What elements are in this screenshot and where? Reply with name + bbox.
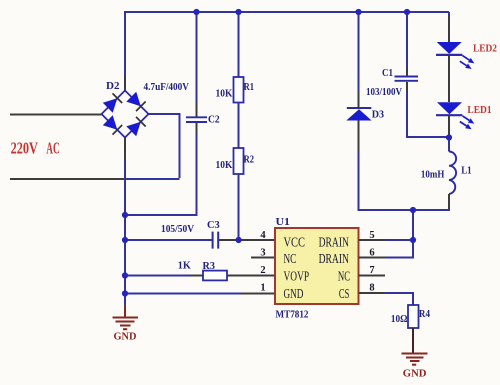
svg-text:10Ω: 10Ω	[391, 314, 408, 325]
svg-text:R2: R2	[244, 155, 254, 166]
svg-text:5: 5	[369, 230, 374, 241]
svg-text:R3: R3	[203, 261, 215, 272]
svg-text:R1: R1	[244, 82, 254, 93]
svg-text:3: 3	[260, 247, 265, 258]
svg-text:10mH: 10mH	[421, 170, 444, 181]
svg-text:GND: GND	[114, 332, 137, 343]
svg-text:6: 6	[369, 247, 374, 258]
svg-text:LED1: LED1	[467, 105, 491, 116]
svg-text:4: 4	[260, 230, 266, 241]
svg-text:L1: L1	[461, 166, 471, 177]
svg-text:VCC: VCC	[284, 234, 306, 249]
svg-text:U1: U1	[276, 217, 291, 228]
svg-text:NC: NC	[284, 251, 297, 266]
svg-text:DRAIN: DRAIN	[319, 251, 350, 266]
svg-text:220V: 220V	[11, 139, 39, 158]
svg-text:MT7812: MT7812	[276, 310, 309, 321]
svg-text:C1: C1	[382, 68, 393, 79]
svg-text:C3: C3	[207, 220, 220, 231]
svg-text:10K: 10K	[216, 160, 234, 171]
svg-text:7: 7	[369, 265, 374, 276]
svg-text:R4: R4	[419, 309, 431, 320]
svg-text:4.7uF/400V: 4.7uF/400V	[144, 82, 190, 93]
svg-text:NC: NC	[338, 269, 350, 284]
svg-text:10K: 10K	[216, 89, 234, 100]
svg-text:DRAIN: DRAIN	[319, 234, 350, 249]
svg-text:D3: D3	[372, 110, 384, 121]
svg-text:GND: GND	[284, 286, 304, 301]
svg-text:105/50V: 105/50V	[161, 224, 194, 235]
svg-text:VOVP: VOVP	[284, 269, 310, 284]
svg-text:CS: CS	[339, 286, 350, 301]
svg-text:2: 2	[260, 265, 265, 276]
svg-text:1K: 1K	[178, 261, 192, 272]
svg-text:LED2: LED2	[473, 44, 497, 55]
svg-text:GND: GND	[403, 369, 427, 380]
svg-text:8: 8	[369, 283, 374, 294]
svg-text:103/100V: 103/100V	[366, 87, 402, 98]
svg-text:AC: AC	[46, 139, 59, 158]
svg-text:1: 1	[260, 283, 265, 294]
svg-text:C2: C2	[208, 115, 220, 126]
svg-text:D2: D2	[106, 81, 120, 92]
